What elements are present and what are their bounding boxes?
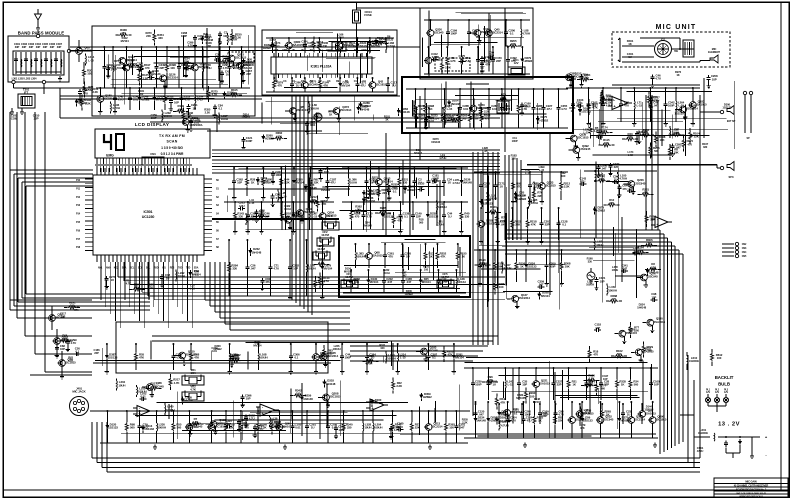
svg-text:2SC2314: 2SC2314 [431,425,443,429]
svg-text:2SC945: 2SC945 [344,43,354,47]
mic unit wires [622,38,700,62]
svg-text:.047: .047 [675,146,681,150]
capacitor C103 [577,98,584,108]
svg-text:10P: 10P [223,34,228,38]
svg-text:2.2K: 2.2K [396,384,403,388]
svg-text:22P: 22P [198,37,203,41]
svg-text:SCL: SCL [146,268,151,270]
svg-text:IC301 PLL02A: IC301 PLL02A [311,65,333,69]
svg-text:MV104: MV104 [533,400,542,404]
diode D349 [138,87,150,110]
svg-text:0.1: 0.1 [562,223,566,227]
ground audio rail [153,445,432,450]
svg-text:1U: 1U [166,276,170,280]
resistor R40 [459,201,470,234]
svg-text:MV104: MV104 [121,39,130,43]
cpu bottom pin names [98,267,199,270]
capacitor C182 [334,425,345,439]
transistor Q183 [416,346,438,362]
vertical bus center-left [292,96,312,315]
svg-text:100UH: 100UH [307,267,316,271]
svg-text:2SC945: 2SC945 [244,63,254,67]
svg-text:2.2K: 2.2K [445,65,452,69]
capacitor C201 [454,410,465,443]
capacitor C121 [241,136,252,150]
transistor Q41 [499,407,522,423]
transistor Q133 [537,171,556,204]
svg-text:4.7K: 4.7K [592,106,599,110]
resistor R99 [511,171,522,204]
resistor R317 [140,46,151,88]
svg-text:10.7M: 10.7M [321,233,329,237]
resistor R159 [173,104,189,113]
svg-text:47U: 47U [489,54,494,58]
svg-text:1SS133: 1SS133 [644,408,654,412]
inductor L54 [437,200,447,212]
capacitor C278 [105,275,116,289]
upper mid wires [60,88,500,122]
part number labels [121,31,213,48]
diode D29 [646,267,659,276]
svg-text:330: 330 [158,36,163,40]
svg-text:2SC1815: 2SC1815 [577,136,589,140]
diode D359 [420,392,433,401]
capacitor C50 [74,347,81,357]
inductor L159 [607,284,617,296]
resistor R393 [444,410,455,443]
svg-text:10P: 10P [237,181,242,185]
capacitor C175 [458,54,465,64]
diode D390 [602,95,615,104]
svg-text:10P: 10P [246,397,251,401]
svg-text:4.7U: 4.7U [366,215,372,219]
svg-text:33P: 33P [57,45,62,49]
svg-text:TXD: TXD [186,268,191,270]
wire mesh [344,239,466,289]
resistor R379 [273,77,284,92]
svg-text:1N4148: 1N4148 [450,102,460,106]
resistor R336 [581,379,597,388]
diode D224 [524,249,537,282]
transistor Q134 [280,214,303,230]
part number labels [414,137,517,160]
capacitor C281 [305,410,316,443]
inductor L100 [618,172,627,184]
mic element [683,40,720,57]
capacitor C282 [288,239,299,300]
diode D312 [240,46,253,88]
capacitor C98 [500,88,510,128]
svg-text:100P: 100P [475,383,482,387]
svg-text:0.01: 0.01 [354,280,360,284]
svg-text:100P: 100P [111,68,118,72]
svg-text:4.7UH: 4.7UH [319,354,326,358]
capacitor C46 [259,201,270,234]
oscillator G1 [314,113,322,121]
microphone switch [655,38,679,58]
svg-text:EMG: EMG [106,154,114,158]
svg-text:1N4148: 1N4148 [303,397,313,401]
svg-text:100P: 100P [345,356,352,360]
resistor R288 [606,294,622,303]
wire rail [474,171,568,173]
resistor R284 [228,239,239,296]
capacitor C217 [169,97,180,111]
transistor Q338 [566,133,589,149]
capacitor C361 [383,243,394,268]
capacitor C176 [228,46,239,88]
svg-text:CHOKE: CHOKE [689,359,699,363]
svg-text:100UH: 100UH [229,38,238,42]
svg-text:470U: 470U [697,449,704,453]
resistor R231 [387,179,398,195]
inductor L88 [520,19,530,46]
wire mesh [276,33,393,88]
svg-text:LCD DISPLAY: LCD DISPLAY [135,122,170,127]
transistor Q74 [58,351,77,379]
capacitor C258 [427,167,438,196]
diode D299 [495,416,508,425]
display data bus [212,150,500,173]
capacitor C222 [238,201,245,211]
resistor R335 [616,367,627,400]
wire rail [464,437,658,439]
svg-text:2SA1015: 2SA1015 [645,412,657,416]
resistor R78 [83,82,94,98]
resistor R291 [64,300,80,309]
part number labels [249,176,460,228]
resistor R144 [319,77,330,92]
diode D20 [242,57,255,66]
svg-text:4.7U: 4.7U [273,267,279,271]
svg-text:BAND PASS MODULE: BAND PASS MODULE [18,31,64,36]
diode D258 [486,401,498,438]
cpu pin labels [76,179,219,249]
svg-text:10P: 10P [600,279,605,283]
svg-text:RXD: RXD [154,268,159,270]
svg-text:1K: 1K [571,109,574,113]
capacitor C211 [271,170,282,184]
svg-text:2SC1815: 2SC1815 [329,395,341,399]
capacitor C118 [594,323,601,333]
svg-text:0.01: 0.01 [212,349,217,353]
svg-text:0.01: 0.01 [310,123,316,127]
node module right [67,49,70,52]
capacitor C365 [184,64,195,78]
inductor L243 [504,367,514,400]
transistor Q232 [596,401,614,438]
resistor R290 [524,388,535,404]
svg-text:4.7U: 4.7U [188,43,193,47]
svg-text:47U: 47U [265,280,270,284]
diode D208 [480,198,493,207]
svg-text:100: 100 [424,267,429,271]
transistor Q95 [275,410,294,443]
resistor R14 [479,103,490,119]
svg-text:33P: 33P [50,45,55,49]
svg-text:22P: 22P [94,351,99,355]
svg-text:SCL: SCL [130,268,135,270]
diode D205 [181,396,194,405]
right edge connectors [722,242,747,258]
inductor L385 [529,196,538,208]
svg-text:10P: 10P [324,170,329,174]
svg-text:47K: 47K [74,308,79,312]
diode D223 [427,107,439,128]
transistor Q110 [631,346,654,362]
svg-text:100UH: 100UH [457,280,466,284]
svg-text:100: 100 [717,356,722,360]
transistor Q296 [575,403,594,424]
svg-text:100P: 100P [338,428,345,432]
dashed block 2 [228,52,254,63]
svg-text:HZ6B2: HZ6B2 [362,104,371,108]
capacitor C105 [290,410,301,443]
svg-text:PTT: PTT [661,38,666,41]
capacitor C22 [364,167,375,200]
capacitor C99 [488,50,495,60]
resistor R338 [270,420,286,429]
svg-text:0.01: 0.01 [133,98,139,102]
svg-text:2SC945: 2SC945 [428,349,438,353]
svg-text:100UH: 100UH [166,408,175,412]
svg-text:1K: 1K [385,118,388,122]
svg-text:4.7UH: 4.7UH [112,106,120,110]
inductor L95 [278,190,287,202]
svg-text:560: 560 [600,387,605,391]
svg-text:0.1: 0.1 [514,412,518,416]
capacitor C209 [326,410,337,443]
resistor R104 [689,128,700,144]
inductor L190 [386,352,396,364]
svg-text:470: 470 [373,179,378,183]
capacitor C162 [586,87,597,126]
diode D168 [538,291,551,300]
op-amp IC3b [256,404,279,416]
svg-text:22P: 22P [557,383,562,387]
svg-text:100P: 100P [181,34,187,38]
resistor R217 [169,374,180,390]
resistor R126 [468,107,479,128]
svg-text:L-15: L-15 [312,215,318,219]
svg-text:.047: .047 [406,280,412,284]
mic unit dashed box [612,32,730,67]
resistor R138 [654,131,665,147]
svg-text:MV104: MV104 [344,269,353,273]
resistor R75 [271,418,282,434]
svg-text:APPROVED DATE SCALE: APPROVED DATE SCALE [739,495,763,498]
svg-text:ELEMENT: ELEMENT [708,50,720,54]
capacitor C170 [362,201,373,230]
transistor Q50 [122,46,140,88]
svg-text:BACKLIT: BACKLIT [715,375,734,380]
trimmer VR2 [182,385,204,402]
svg-text:1U: 1U [627,413,631,417]
svg-text:10UH: 10UH [350,181,357,185]
svg-text:0.1: 0.1 [404,215,408,219]
inductor L317 [219,112,228,124]
svg-text:330: 330 [465,215,470,219]
resistor R362 [351,204,367,213]
capacitor C239 [471,367,482,400]
resistor R2 [645,262,661,271]
inductor L317 [502,261,511,273]
diode D152 [514,194,527,203]
diode D387 [105,343,118,374]
capacitor C39 [138,410,148,443]
svg-text:MV104: MV104 [455,356,464,360]
inductor L340 [165,403,175,415]
inductor L196 [111,101,120,113]
band pass module label [18,31,64,36]
capacitor C149 [411,201,422,230]
capacitor C128 [184,61,191,71]
diode D120 [291,201,304,234]
resistor R113 [319,272,330,288]
svg-text:RES: RES [170,268,175,270]
svg-text:1N4148: 1N4148 [462,181,472,185]
svg-text:22P: 22P [246,72,251,76]
capacitor C201 [539,207,550,244]
capacitor C285 [528,171,539,204]
resistor R362 [377,184,388,200]
resistor R106 [318,37,329,53]
IC U301 pin labels [274,49,367,83]
svg-text:1N4148: 1N4148 [637,305,646,309]
svg-text:4.7UH: 4.7UH [452,181,459,185]
band pass module inner box [13,51,64,75]
inductor L230 [156,410,166,443]
capacitor C357 [269,38,276,48]
svg-text:1U: 1U [296,84,300,88]
svg-text:L-15: L-15 [190,287,196,291]
svg-text:2SC2314: 2SC2314 [327,354,339,358]
svg-text:1SS133: 1SS133 [373,401,383,405]
capacitor C135 [418,182,425,192]
svg-text:100: 100 [449,426,454,430]
inductor L223 [461,46,471,74]
svg-text:UC1230: UC1230 [142,215,155,219]
svg-text:2SC1815: 2SC1815 [303,210,315,214]
capacitor C208 [707,74,718,88]
capacitor C181 [432,173,439,183]
svg-text:.047: .047 [601,167,607,171]
resistor R83 [553,401,564,438]
svg-text:IFT: IFT [24,91,28,95]
capacitor C27 [436,269,446,293]
op-amp IC2a [608,97,632,110]
right side bus loop [505,230,683,454]
transistor Q68 [365,243,384,268]
svg-text:2SC2314: 2SC2314 [491,31,503,35]
inductor L119 [487,192,497,204]
resistor R202 [281,201,292,230]
capacitor C322 [188,422,199,436]
diode D119 [256,176,269,185]
capacitor C222 [230,353,241,367]
capacitor C120 [474,403,485,424]
band pass module filters [14,52,62,74]
diode D55 [514,190,527,199]
svg-text:SHT 1 OF 1 REV A DWG 100-42: SHT 1 OF 1 REV A DWG 100-42 [736,492,766,495]
svg-text:1U: 1U [492,383,496,387]
capacitor C49 [648,87,659,122]
svg-text:100P: 100P [275,173,282,177]
inductor L183 [385,37,395,53]
resistor R248 [495,394,506,410]
part number labels [344,264,430,296]
capacitor C112 [180,87,191,110]
resistor R205 [505,39,521,48]
capacitor C304 [506,401,517,438]
capacitor C213 [319,167,330,181]
svg-text:100P: 100P [246,139,253,143]
wire rail [266,91,394,93]
svg-text:560: 560 [177,426,182,430]
diode D130 [367,269,379,293]
svg-text:1SS133: 1SS133 [108,426,118,430]
diode D197 [578,106,591,115]
svg-text:4.7K: 4.7K [473,117,480,121]
capacitor C15 [476,46,486,74]
wire mesh [109,28,254,105]
svg-text:L-15: L-15 [249,201,255,205]
node module bottom-mid [42,80,45,83]
resistor R230 [231,29,242,45]
op-amp IC3a [133,406,154,417]
resistor R612v [710,349,722,366]
ground below T301 [10,108,14,114]
svg-text:560: 560 [647,348,652,352]
resistor R12 [604,198,620,207]
svg-text:CN2: CN2 [742,243,747,246]
crystal X301 [332,41,357,51]
diode D286 [359,101,372,110]
lcd display label [135,122,203,127]
transistor Q219 [312,343,330,374]
svg-text:HZ6B2: HZ6B2 [259,179,268,183]
resistor R136 [584,373,600,382]
connector box [142,152,164,165]
inductor L328 [362,410,372,443]
capacitor C321 [594,276,605,290]
capacitor C376 [584,367,595,400]
svg-text:10P: 10P [712,77,717,81]
svg-text:560: 560 [139,92,144,96]
svg-text:0.1: 0.1 [510,32,514,36]
resistor R313 [312,37,323,53]
inductor L386 [347,167,357,196]
svg-text:HZ6B2: HZ6B2 [407,188,416,192]
svg-text:10UH: 10UH [596,243,603,247]
capacitor C322 [596,129,603,139]
diode D33 [189,269,202,278]
svg-text:1K: 1K [329,112,332,116]
svg-text:330: 330 [703,145,708,149]
svg-text:330: 330 [347,426,352,430]
resistor R262 [372,36,388,45]
capacitor C223 [480,59,491,73]
svg-text:10UH: 10UH [118,383,125,387]
diode D59 [580,401,593,438]
transistor Q330 [426,19,444,46]
capacitor C71 [571,87,582,122]
svg-text:CN1: CN1 [150,152,156,156]
capacitor C367 [241,69,252,83]
svg-text:HZ6B2: HZ6B2 [242,116,251,120]
labels below T301 [11,114,40,121]
svg-text:2SC945: 2SC945 [648,275,658,279]
